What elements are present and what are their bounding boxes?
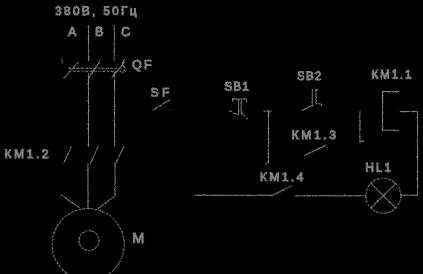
breaker QF pole 1 blade (64, 62, 78, 78)
wire phase C upper (113, 25, 115, 60)
svg-text:SB1: SB1 (224, 81, 249, 93)
lamp HL1 cross stroke 1 (370, 183, 395, 208)
button SB1 terminal dot (246, 117, 248, 119)
wire motor middle lead (86, 163, 88, 208)
button SB1 stem right (240, 99, 242, 113)
wire bottom rail right segment (295, 194, 366, 196)
breaker QF pole 2 blade (88, 61, 99, 78)
button SB2 bottom tick (316, 102, 320, 104)
wire phase A stub (61, 59, 62, 63)
wire phase B upper (87, 25, 89, 60)
wire lamp right connection (400, 194, 417, 196)
wire bottom rail left segment (194, 194, 272, 196)
breaker QF linkage end hook (122, 60, 125, 73)
button SB2 terminal dot (320, 103, 322, 105)
contact KM1.2 pole 1 blade (63, 146, 71, 163)
motor M1 inner circle (79, 230, 99, 250)
svg-text:HL1: HL1 (365, 162, 392, 174)
contact KM1.4 blade (271, 186, 291, 196)
svg-text:КМ1.2: КМ1.2 (4, 146, 51, 160)
contact SF blade (152, 99, 169, 109)
contact SF terminal dot (169, 109, 170, 110)
contact KM1.2 pole 3 blade (115, 146, 123, 163)
button SB2 top tick (316, 88, 318, 90)
breaker QF linkage dashed line upper (68, 67, 120, 69)
button SB1 blade diagonal (241, 113, 245, 117)
wire right rail vertical (416, 111, 418, 195)
contact KM1.3 blade (304, 145, 326, 156)
svg-text:380В, 50Гц: 380В, 50Гц (55, 4, 139, 18)
wire motor left lead diagonal (61, 194, 79, 207)
svg-text:SF: SF (150, 85, 172, 99)
button SB1 left terminal dash (229, 110, 232, 112)
wire branch left vertical (263, 111, 271, 164)
coil KM1.1 top side (382, 90, 399, 92)
svg-text:КМ1.3: КМ1.3 (291, 128, 338, 142)
svg-text:A: A (68, 25, 77, 39)
svg-text:B: B (95, 25, 103, 39)
wire motor right lead (97, 163, 114, 208)
wire phase C middle (113, 72, 115, 146)
lamp HL1 cross stroke 2 (370, 183, 395, 208)
wire branch right vertical (359, 111, 363, 142)
svg-text:КМ1.1: КМ1.1 (371, 69, 413, 81)
svg-text:SB2: SB2 (297, 71, 322, 83)
button SB2 blade diagonal (302, 105, 312, 110)
coil KM1.1 left side (381, 91, 383, 130)
coil KM1.1 bottom side (382, 129, 398, 131)
button SB1 head bar (232, 99, 246, 102)
button SB2 stem left (311, 89, 313, 106)
wire phase B middle (87, 73, 89, 146)
wire coil to right rail (400, 110, 417, 112)
contact KM1.2 pole 2 blade (90, 146, 98, 163)
motor M1 outer circle (52, 208, 124, 274)
button SB2 stem right (315, 89, 317, 104)
breaker QF pole 3 blade (112, 62, 124, 77)
breaker QF linkage dashed line lower (69, 70, 121, 72)
svg-text:C: C (121, 25, 130, 39)
button SB1 stem left (237, 99, 239, 113)
svg-text:КМ1.4: КМ1.4 (260, 170, 306, 184)
svg-text:M: M (132, 231, 144, 247)
lamp HL1 circle (365, 178, 400, 213)
svg-text:QF: QF (132, 58, 154, 72)
button SB1 lower-left stroke (233, 113, 238, 114)
